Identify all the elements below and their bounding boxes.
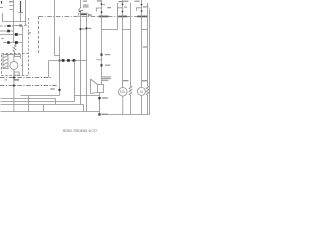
junction dot (99.5,98.1): [98, 97, 100, 99]
thermostat 1 label: [105, 54, 111, 55]
wire: vertical x141.5 upper: [141, 0, 143, 30]
wire: short horizontal y31: [0, 30, 14, 32]
wire: M bottom lead: [140, 95, 142, 114]
pair 1 merge link: [102, 29, 118, 31]
thermostat contact 1: [101, 53, 103, 56]
junction dot (99.5,114.3): [98, 113, 100, 115]
label smudge 474A: [50, 88, 54, 89]
wire: left edge short vertical: [2, 13, 4, 21]
wire: vertical x74.5: [74, 61, 76, 102]
wire: vertical x122.5 down: [122, 30, 124, 88]
component: dark vertical element x20.5: [20, 1, 22, 13]
wire: top lead inside box: [6, 54, 21, 56]
wire: vertical x122.5 upper: [122, 0, 124, 30]
terminal blob B2 (left): [7, 41, 10, 44]
connector plug blob 1: [62, 59, 65, 62]
heater square box: [98, 85, 104, 93]
junction dot (86.5,28.4): [85, 27, 87, 29]
small component box on box bottom: [14, 72, 19, 75]
wire: vertical x59.5: [59, 37, 61, 96]
junction dot at (59.5,60.5): [58, 59, 60, 61]
wire: horizontal y95.5 right part: [75, 95, 100, 97]
door switch label smudges: [83, 5, 89, 6]
connector plug blob 2: [67, 59, 70, 62]
pair 3 merge link: [142, 29, 148, 31]
resistor R-sol x130.5: [129, 30, 132, 115]
junction dot x14 on y85.5: [13, 84, 15, 86]
label block (3 lines): [102, 76, 111, 77]
wire: vertical x25.5 with end tick: [24, 0, 27, 25]
wire: heater branch vertical: [101, 30, 103, 85]
small label right of M branch y47: [143, 46, 147, 47]
M label smudge: [142, 80, 147, 81]
small label: [124, 7, 127, 8]
wire: jog at y55.5: [55, 55, 60, 57]
connector plug blob 3: [73, 59, 76, 62]
timer winding component (hatched rect): [3, 55, 8, 69]
door switch blade: [78, 6, 81, 10]
wire: vertical x28.5: [28, 96, 30, 112]
label right: [102, 97, 108, 98]
wire: plug line y60.5: [49, 60, 87, 62]
wire: horizontal y98.5: [1, 98, 56, 100]
dashed vertical at x38.5: [38, 17, 40, 55]
wire: vertical x43.5: [43, 105, 45, 112]
corner drop x83.5: [83, 105, 85, 112]
companion vertical x130.5: [130, 3, 132, 30]
label top: [135, 1, 140, 2]
tiny dark label under line1: [13, 79, 19, 80]
contact dots: [101, 3, 103, 5]
wire: down from blob B with resistor: [13, 44, 16, 57]
wire: continuation to y21.5: [20, 13, 22, 22]
label right: [102, 114, 108, 115]
tick at y59.8: [97, 59, 102, 61]
label smudge CRT top right: [145, 6, 149, 7]
terminal blob A: [15, 33, 18, 36]
wire: horizontal y42.5: [3, 42, 23, 44]
wire: horizontal at y56.5: [15, 56, 21, 58]
capacitor ticks on x13.5: [10, 6, 14, 10]
motor circle M: [137, 87, 145, 95]
label smudge top: [83, 1, 87, 2]
blade L: [137, 8, 142, 11]
companion vertical x147.5: [147, 3, 149, 30]
wire: vertical x48.5 down to dash line: [48, 61, 50, 78]
bus: horizontal y114.5: [100, 114, 150, 116]
wire: circle bottom lead: [13, 69, 15, 111]
wire: vertical x86.5: [86, 16, 88, 112]
wire: vertical x141.5 down: [141, 30, 143, 88]
dark wire-number smudge on separator x118-130: [119, 16, 128, 18]
wire: short drop x20.5: [20, 55, 22, 59]
SOL label smudge: [123, 80, 129, 81]
timer dashed box: [2, 54, 29, 76]
wire: horizontal y95.5 left: [21, 95, 60, 97]
dark junction blob near x20.5 y25.5: [19, 25, 22, 27]
label smudge x118 top: [118, 1, 123, 2]
wire: vertical x80.5: [80, 12, 82, 105]
tick on x22.5 at y65.5: [21, 65, 23, 67]
wire: long vertical x54.5: [54, 0, 56, 56]
thermostat contact 2: [101, 64, 103, 67]
dashed vertical at x28.5: [28, 18, 30, 54]
svg-text:SOL: SOL: [120, 90, 127, 94]
dash-dot line y85.5: [0, 85, 58, 87]
pair 2 merge link: [123, 29, 131, 31]
terminal blob B: [15, 41, 18, 44]
resistor R-m x147.5: [146, 30, 149, 115]
wire: vertical x13.5: [13, 0, 15, 43]
dark label on separator near x80-92: [80, 14, 87, 16]
small label: [143, 6, 145, 7]
wire: horizontal y25.5: [13, 25, 22, 27]
dark wire-number smudge on separator x98-108: [99, 16, 109, 18]
label top: [97, 0, 101, 1]
companion vertical x117.5: [117, 3, 119, 30]
svg-text:MODEL 790E3654B, W CST: MODEL 790E3654B, W CST: [63, 129, 97, 133]
svg-text:M: M: [140, 90, 143, 94]
dash-dot line y77.5: [0, 77, 52, 79]
small labels: [103, 4, 105, 5]
wire: circle top lead: [13, 55, 15, 62]
junction dot x14 on y77.5: [13, 76, 15, 78]
dashed wire left at y26: [0, 25, 13, 27]
blade L: [96, 8, 101, 12]
dash-dot separator y16.5: [39, 16, 150, 18]
wire: horizontal y101.5: [1, 101, 75, 103]
label right of dot: [88, 28, 91, 29]
tiny mark left edge between: [2, 38, 4, 39]
solenoid circle SOL: [119, 88, 128, 97]
funnel horn: [91, 79, 98, 94]
wire: door switch top lead: [80, 0, 82, 8]
connector blob on dashed wire: [7, 25, 10, 27]
wire: vertical x101.5 upper: [101, 0, 103, 30]
wire: horizontal y21.5: [2, 21, 26, 23]
dark wire-number smudge on separator x137-147: [137, 16, 147, 18]
tick left edge: [0, 7, 3, 9]
junction dot (80.5,29): [79, 28, 81, 30]
wire: vertical x22.5 down through timer box: [22, 26, 24, 76]
terminal blob A2 (left): [7, 30, 10, 33]
thermostat 2 label: [105, 65, 111, 66]
label right of dot: [82, 28, 85, 29]
contact dots: [122, 4, 124, 6]
wire: horizontal y104.5: [1, 104, 84, 106]
label box outline on separator: [79, 13, 89, 16]
door switch contact dot: [79, 10, 81, 12]
wire: SOL bottom lead: [122, 96, 124, 114]
label smudge right of blobs: [28, 32, 31, 33]
wire: heater drop x99.5: [99, 93, 101, 115]
wire: far right vertical x149.5: [149, 9, 151, 115]
corner drop x55.5: [55, 99, 57, 105]
terminal mark top-left corner: [1, 1, 3, 4]
junction dot B (59.5,89.9): [58, 89, 60, 91]
contact dots: [141, 4, 143, 6]
tick at its bottom: [19, 12, 24, 14]
label top: [123, 1, 128, 2]
wire: horizontal y34.5: [0, 34, 23, 36]
timer motor circle: [10, 61, 18, 69]
label smudge top-left: [9, 1, 14, 2]
bus: horizontal y111.5: [1, 111, 100, 113]
blade L: [118, 8, 123, 11]
tiny label at left: [5, 79, 8, 80]
